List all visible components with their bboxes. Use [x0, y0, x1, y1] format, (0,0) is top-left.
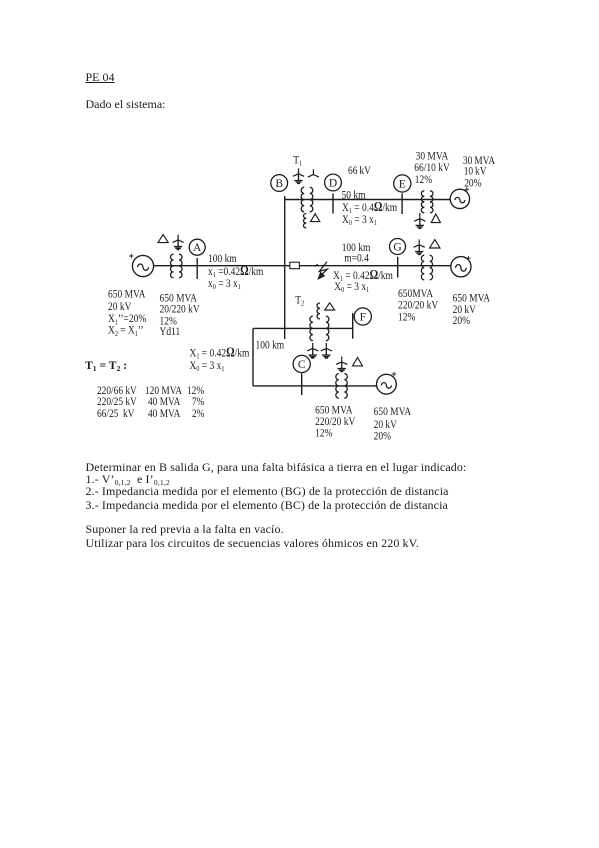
- svg-text:650 MVA: 650 MVA: [108, 288, 146, 301]
- node G: [390, 239, 406, 255]
- fault lightning arrow: [319, 262, 327, 275]
- transformer T1 tertiary winding coil: [303, 214, 306, 228]
- transformer T2 tertiary coil: [317, 303, 320, 319]
- wire: bottom C bus: [253, 385, 377, 387]
- transformer T1 tertiary delta symbol: [311, 214, 320, 222]
- svg-text:20%: 20%: [464, 177, 481, 190]
- wire: 220 kV line from generator A to generator G (through fault point): [154, 265, 451, 267]
- svg-text:12%: 12%: [415, 173, 432, 186]
- transformer C secondary coil: [344, 374, 347, 399]
- generator at A side (650 MVA 20 kV): [132, 255, 153, 276]
- transformer A secondary coil: [179, 254, 182, 278]
- wire: 66 kV top bus from corner B to E transformer/generator: [285, 199, 451, 201]
- node D: [325, 174, 342, 191]
- label T1 = T2 table: [85, 359, 127, 373]
- node G tick: [397, 257, 399, 278]
- transformer T2 grounded-star symbol 1: [307, 343, 318, 351]
- transformer T1 winding primary coil: [301, 187, 304, 212]
- transformer G grounded-star symbol: [414, 239, 425, 247]
- svg-text:650 MVA: 650 MVA: [374, 405, 412, 418]
- transformer G secondary coil: [430, 255, 433, 280]
- svg-text:D: D: [329, 178, 337, 190]
- svg-text:T2: T2: [295, 294, 304, 308]
- svg-text:50 km: 50 km: [342, 188, 366, 201]
- wire: node F vertical stub: [352, 313, 354, 339]
- transformer C grounded-star symbol: [336, 357, 347, 365]
- transformer A delta symbol: [158, 235, 168, 243]
- generator at C side (650 MVA 20 kV): [377, 374, 397, 394]
- svg-text:Yd11: Yd11: [160, 325, 181, 338]
- node D tick: [332, 194, 334, 214]
- breaker/relay box on 220 kV line at B: [290, 262, 300, 269]
- svg-text:B: B: [275, 178, 283, 190]
- node E tick: [401, 194, 403, 215]
- svg-text:X0 = 3 x1: X0 = 3 x1: [342, 213, 377, 227]
- node E: [394, 175, 411, 192]
- node F: [354, 308, 371, 325]
- transformer A primary coil: [171, 254, 174, 278]
- svg-text:12%: 12%: [398, 311, 415, 324]
- wire: 100 km vertical line to C bus: [252, 328, 254, 386]
- svg-text:T1: T1: [293, 154, 302, 168]
- transformer E primary coil: [421, 191, 424, 213]
- transformer G primary coil: [421, 255, 424, 280]
- svg-text:X2 = X1’’: X2 = X1’’: [108, 324, 144, 338]
- transformer E grounded-star symbol: [414, 213, 425, 221]
- transformer C primary coil: [336, 374, 339, 399]
- svg-text:20%: 20%: [374, 429, 391, 442]
- wire: T2 branch horizontal to node F: [253, 327, 353, 329]
- svg-text:C: C: [298, 359, 306, 371]
- transformer E secondary coil: [430, 191, 433, 213]
- svg-text:X0 = 3 x1: X0 = 3 x1: [334, 280, 369, 294]
- svg-text:m=0.4: m=0.4: [344, 252, 369, 265]
- fault location tick on line: [315, 264, 318, 266]
- svg-text:100 km: 100 km: [256, 338, 285, 351]
- svg-text:12%: 12%: [315, 427, 332, 440]
- node B: [271, 175, 288, 192]
- transformer T1 star symbol: [308, 169, 319, 177]
- svg-text:X0 = 3 x1: X0 = 3 x1: [190, 359, 225, 373]
- transformer T2 primary coil: [310, 316, 313, 341]
- generator at E side (30 MVA 10 kV): [450, 189, 469, 208]
- svg-text:F: F: [360, 312, 366, 324]
- transformer E delta symbol: [431, 214, 440, 223]
- svg-text:E: E: [399, 179, 406, 191]
- transformer T1 winding secondary coil: [310, 187, 313, 212]
- svg-text:20%: 20%: [453, 314, 470, 327]
- wire: vertical link from B bus down to T2 junction: [284, 196, 286, 339]
- svg-text:100 km: 100 km: [208, 252, 237, 265]
- svg-text:66 kV: 66 kV: [348, 164, 371, 177]
- transformer T2 tertiary delta symbol: [325, 303, 335, 310]
- svg-text:A: A: [193, 242, 202, 254]
- node C: [293, 355, 310, 372]
- transformer G delta symbol: [430, 240, 440, 248]
- transformer T2 secondary coil: [326, 316, 329, 341]
- transformer T2 grounded-star symbol 2: [321, 343, 332, 351]
- node C tick: [301, 373, 303, 395]
- generator at G side (650 MVA 20 kV): [451, 257, 471, 277]
- transformer A grounded-star symbol: [173, 235, 184, 243]
- transformer C delta symbol: [353, 358, 363, 366]
- svg-text:G: G: [393, 242, 401, 254]
- transformer T1 grounded-star symbol: [293, 168, 304, 176]
- node A tick: [196, 258, 198, 279]
- node A: [189, 239, 205, 255]
